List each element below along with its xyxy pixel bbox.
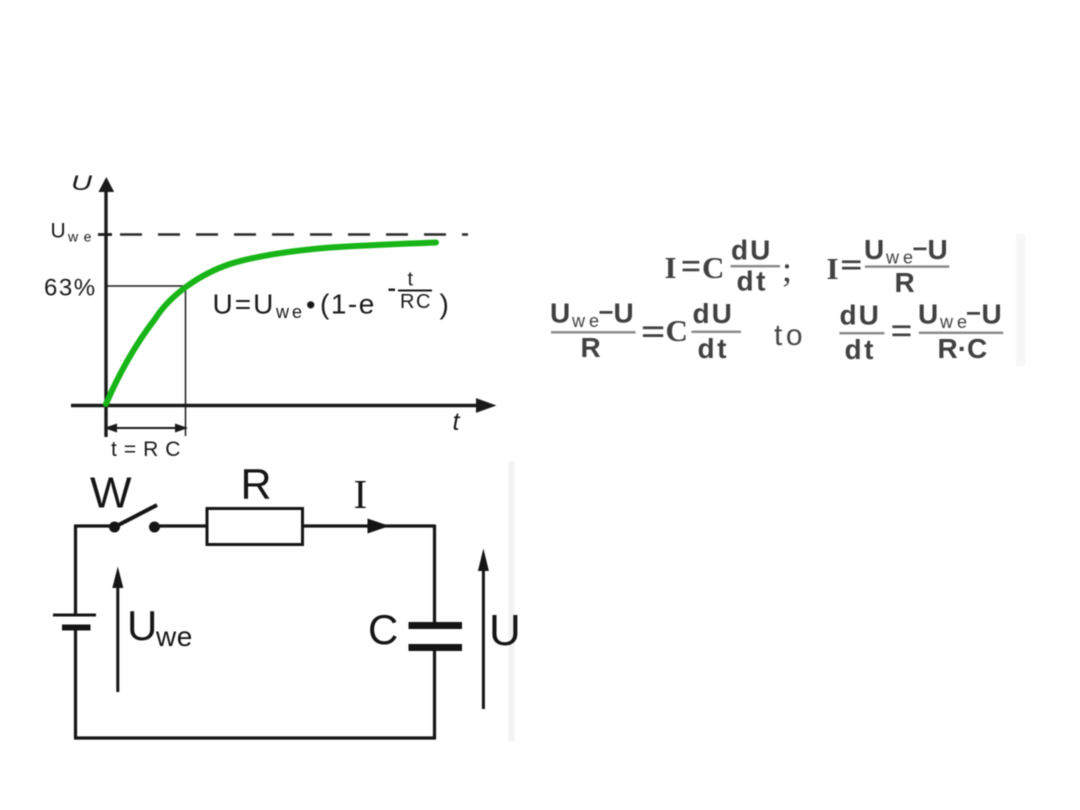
svg-text:•: •: [306, 290, 315, 320]
svg-text:R: R: [581, 332, 601, 363]
svg-text:R·C: R·C: [938, 333, 988, 364]
current arrow: [368, 519, 390, 534]
svg-text:R: R: [895, 267, 915, 298]
svg-text:;: ;: [782, 249, 792, 289]
svg-text:U: U: [864, 234, 884, 265]
svg-text:U: U: [51, 220, 66, 243]
switch contact dot right: [149, 522, 160, 533]
63% horizontal guide line: [107, 285, 186, 287]
svg-text:dt: dt: [737, 266, 768, 297]
svg-text:W: W: [90, 469, 132, 518]
svg-text:I: I: [354, 471, 368, 517]
svg-text:C: C: [702, 250, 724, 285]
wire left vertical lower: [74, 628, 77, 738]
svg-text:we: we: [155, 621, 193, 652]
wire resistor to capacitor branch: [302, 524, 435, 527]
battery short thick plate: [62, 625, 91, 631]
svg-text:U: U: [918, 299, 938, 330]
U voltage arrow: [478, 549, 489, 710]
wire left vertical upper: [74, 525, 77, 616]
formula U=Uwe(1-e^-t/RC): [213, 269, 449, 323]
svg-text:dt: dt: [845, 334, 876, 365]
y-axis: [98, 177, 114, 437]
eq1: I = C dU/dt ;: [665, 235, 793, 297]
wire switch to resistor: [155, 524, 207, 527]
x-axis: [71, 398, 497, 413]
svg-text:we: we: [571, 311, 603, 331]
svg-text:we: we: [275, 302, 305, 322]
capacitor C bottom plate: [409, 644, 463, 651]
Uwe source label: [127, 602, 193, 652]
svg-text:RC: RC: [400, 291, 432, 313]
svg-text:we: we: [67, 229, 97, 245]
svg-text:U: U: [614, 298, 634, 329]
wire right vertical upper: [433, 525, 436, 623]
svg-text:): ): [440, 289, 449, 320]
wire bottom: [74, 736, 436, 739]
svg-text:C: C: [666, 313, 688, 348]
svg-text:I: I: [665, 250, 677, 285]
svg-text:t: t: [408, 269, 414, 291]
svg-text:dU: dU: [693, 298, 734, 329]
svg-text:U: U: [489, 606, 521, 655]
svg-text:I: I: [827, 251, 839, 286]
svg-text:U: U: [982, 299, 1002, 330]
resistor R body: [207, 509, 303, 545]
faint image-edge strip right of circuit: [509, 461, 515, 741]
double-headed arrow under axis: [104, 424, 188, 433]
eq3: (Uwe-U)/R = C dU/dt: [550, 298, 741, 365]
Uwe level label: [51, 220, 97, 245]
svg-text:t=RC: t=RC: [111, 438, 187, 461]
eq4: dU/dt = (Uwe-U)/(R·C): [839, 299, 1003, 366]
svg-text:to: to: [774, 319, 806, 352]
wire top left: [75, 524, 110, 527]
svg-text:dt: dt: [698, 333, 729, 364]
switch contact dot left: [109, 522, 120, 533]
capacitor C top plate: [409, 622, 463, 629]
svg-text:U=U: U=U: [213, 289, 276, 320]
svg-text:U: U: [550, 298, 570, 329]
svg-text:C: C: [368, 606, 398, 653]
svg-text:U: U: [127, 602, 157, 649]
green charging curve: [106, 243, 436, 405]
svg-text:dU: dU: [731, 235, 772, 266]
svg-text:R: R: [241, 461, 272, 509]
Uwe tick: [98, 233, 112, 236]
svg-text:63%: 63%: [44, 275, 97, 302]
switch W lever: [115, 505, 158, 527]
battery long plate: [53, 614, 96, 617]
svg-text:U: U: [928, 234, 948, 265]
svg-text:dU: dU: [840, 300, 881, 331]
svg-text:t: t: [453, 408, 461, 436]
Uwe source arrow: [112, 567, 123, 693]
svg-text:we: we: [939, 312, 971, 332]
faint image-edge strip right of equations: [1016, 234, 1025, 366]
t=RC vertical guide line: [185, 286, 187, 436]
wire right vertical lower: [433, 651, 436, 740]
svg-text:U: U: [71, 172, 93, 195]
eq2: I = (Uwe-U)/R: [827, 234, 950, 298]
svg-text:we: we: [885, 248, 917, 268]
svg-text:(1-e: (1-e: [320, 289, 376, 320]
dashed asymptote line: [120, 233, 468, 235]
